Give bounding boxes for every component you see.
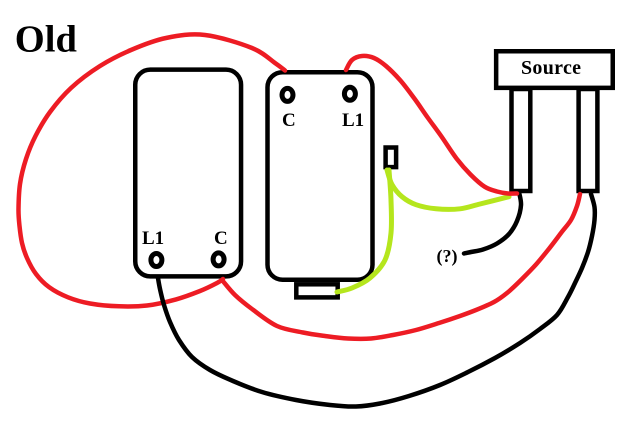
svg-text:L1: L1 (342, 110, 364, 131)
right switch terminal C (282, 88, 293, 101)
wire G (green: small connector down to ground tab) (337, 170, 392, 292)
svg-text:L1: L1 (142, 228, 164, 249)
right switch body (268, 72, 373, 280)
svg-text:Old: Old (15, 18, 77, 60)
wire F (green: small connector swoop to source left prong) (387, 170, 509, 209)
wire C (red: left switch C terminal to source right prong) (222, 194, 580, 339)
source box (496, 51, 613, 88)
wire B (red: right switch L1 top over bump down to source left prong) (346, 56, 517, 194)
source left prong (512, 89, 531, 191)
small connector (ground lug) right of right switch (386, 148, 397, 168)
wire A (red: left switch C terminal around left and top to right switch C) (18, 34, 285, 306)
source right prong (579, 89, 598, 191)
left switch terminal C (213, 253, 224, 266)
svg-text:Source: Source (521, 57, 581, 79)
svg-text:C: C (282, 110, 296, 131)
left switch terminal L1 (151, 254, 162, 267)
svg-text:C: C (214, 228, 228, 249)
wire D (black: left switch L1 terminal big bottom arc to source right prong) (158, 194, 595, 407)
ground tab under right switch (296, 284, 337, 297)
left switch body (135, 70, 241, 277)
right switch terminal L1 (344, 87, 355, 100)
svg-text:(?): (?) (437, 246, 458, 267)
wire E (black: source left prong to (?) end) (464, 192, 521, 254)
